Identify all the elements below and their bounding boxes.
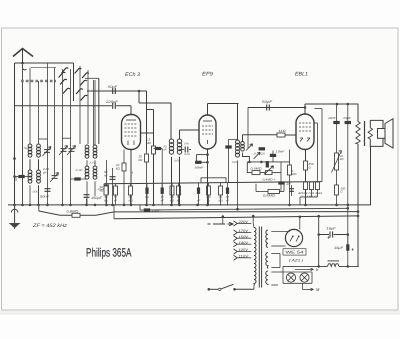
gray strip below page — [0, 311, 400, 315]
svg-text:nF: nF — [161, 199, 164, 202]
coil IF2 primary — [236, 140, 240, 144]
capacitor 50pF top — [267, 105, 270, 111]
bus junction — [335, 204, 338, 207]
wire avc low 2 — [260, 172, 266, 174]
transformer sec HT — [266, 230, 268, 247]
capacitor coupling blob — [18, 175, 24, 178]
resistor trio 3 — [316, 182, 320, 190]
resistor 0.8M left — [72, 213, 80, 217]
bus junction — [21, 204, 24, 207]
svg-text:Philips 365A: Philips 365A — [86, 245, 132, 259]
wire IF2 prim bot — [237, 160, 239, 209]
speaker — [378, 129, 386, 139]
svg-text:1,5k: 1,5k — [89, 162, 97, 165]
svg-text:MΩ: MΩ — [218, 199, 222, 202]
wire avc mid — [247, 161, 289, 163]
resistor osc 50k — [105, 185, 109, 194]
capacitor out 2 — [345, 121, 351, 124]
coil IF2 secondary — [241, 142, 245, 146]
wire EBL1 anode top — [304, 104, 306, 114]
wire osc low b — [94, 181, 96, 196]
coil L3a — [85, 145, 89, 149]
svg-text:kΩ: kΩ — [104, 199, 107, 202]
wire lamp feed top — [271, 271, 283, 273]
wire osc link upper — [147, 109, 154, 111]
wire switch vertical x70 — [70, 69, 72, 206]
wire screen line — [140, 208, 348, 210]
capacitor 50nF trio — [291, 185, 293, 196]
wire avc low 3 — [272, 172, 281, 174]
wire anode feed corner — [138, 91, 140, 103]
bus junction — [123, 204, 126, 207]
wire x336 upper — [336, 104, 338, 153]
transformer tap 220V — [234, 221, 238, 226]
capacitor IF2 blob — [229, 140, 238, 183]
wire EBL1 cathode — [305, 150, 307, 206]
capacitor blob mid — [259, 147, 265, 150]
node b+ mid — [317, 233, 320, 236]
node antenna bus — [21, 62, 24, 65]
wire screen loop — [201, 178, 226, 182]
dial lamp 1 — [286, 273, 295, 282]
svg-text:ECh 3: ECh 3 — [125, 72, 140, 78]
trimmer capacitor rf 2 — [69, 149, 75, 152]
transformer mains primary — [254, 228, 256, 286]
capacitor 150pF — [84, 195, 90, 198]
wire x38 lower — [38, 185, 40, 206]
capacitor 220pF — [113, 103, 116, 109]
trimmer capacitor rf 1 — [61, 149, 67, 152]
band switch contact 7 — [63, 88, 70, 93]
wire link ant top — [39, 138, 48, 140]
svg-text:2μF: 2μF — [285, 182, 291, 186]
wire cath tap — [196, 154, 207, 156]
wire osc mid b — [94, 160, 96, 166]
bus junction — [61, 204, 64, 207]
svg-text:1kΩ: 1kΩ — [279, 129, 287, 133]
bus junction — [152, 204, 155, 207]
svg-text:50p: 50p — [14, 176, 18, 181]
wire rosc v — [106, 160, 108, 206]
wire top y107 — [248, 107, 305, 109]
wire B+ drop — [318, 216, 320, 266]
wire IF1 sec top — [179, 130, 181, 139]
svg-text:220pF: 220pF — [105, 100, 119, 104]
wire HT rail — [114, 216, 358, 219]
bus junction — [13, 204, 16, 207]
svg-text:WE 54: WE 54 — [286, 250, 305, 255]
capacitor row 11 — [227, 183, 229, 188]
wire IF2 sec bot — [243, 153, 250, 162]
bus junction — [170, 204, 173, 207]
wire light horizontal y67 — [31, 67, 56, 69]
bus junction — [288, 204, 291, 207]
potentiometer tone — [335, 153, 339, 170]
svg-text:3-30: 3-30 — [76, 169, 84, 172]
trimmer capacitor ant 1 — [44, 150, 50, 153]
svg-text:150pF: 150pF — [91, 196, 103, 200]
svg-text:ZF = 452 kHz: ZF = 452 kHz — [32, 223, 68, 229]
wire x347 long — [347, 104, 349, 245]
tube ECh3 grids — [125, 124, 138, 136]
svg-text:50μF: 50μF — [98, 188, 105, 191]
coil L2b — [37, 170, 41, 174]
svg-text:Σ | MΩ Ω: Σ | MΩ Ω — [301, 196, 317, 199]
resistor 10k — [122, 163, 126, 171]
wire rect heater a — [271, 253, 280, 255]
svg-text:nF: nF — [114, 199, 117, 202]
wire rect heater b — [271, 267, 280, 269]
wire switch vertical x95 — [94, 80, 96, 145]
coil L1b — [37, 144, 41, 148]
tube EBL1 grids — [299, 123, 311, 131]
coil IF1 primary — [169, 139, 173, 143]
wire grid line y105 — [15, 105, 132, 107]
wire link rf top — [63, 137, 71, 139]
wire IF1 grid — [180, 129, 200, 131]
wire cap anode — [154, 148, 163, 150]
wire AVC grid — [243, 134, 278, 136]
tube ECh3 envelope — [122, 115, 141, 150]
svg-text:0,4MΩ +: 0,4MΩ + — [263, 177, 276, 181]
wire switch feed vertical — [73, 63, 75, 101]
svg-text:nF: nF — [164, 149, 167, 152]
bus junction — [105, 204, 108, 207]
capacitor IF1 — [180, 149, 192, 151]
wire speaker return — [370, 146, 372, 205]
bus junction — [145, 204, 148, 207]
wire diode top link — [315, 108, 323, 110]
transformer tap 125V — [234, 249, 238, 254]
svg-text:150V: 150V — [239, 235, 249, 239]
capacitor 16uF b — [346, 244, 349, 250]
wire 150p down — [86, 199, 88, 206]
antenna — [13, 49, 33, 57]
svg-text:50pF: 50pF — [262, 100, 273, 104]
ground — [14, 205, 16, 223]
bus junction — [111, 204, 114, 207]
capacitor 10nF bus — [144, 208, 150, 211]
resistor 100ohm — [336, 170, 338, 205]
capacitor padding blob — [74, 177, 80, 180]
wire trio bottom — [300, 196, 318, 198]
wire rect anode 1 — [271, 231, 289, 233]
svg-text:0,8MΩ: 0,8MΩ — [67, 210, 80, 214]
svg-text:pF: pF — [42, 170, 47, 174]
transformer sec heater1 — [266, 252, 268, 268]
wire trio rail — [296, 181, 322, 183]
wire switch vertical x80 — [79, 66, 81, 144]
svg-text:5%: 5% — [145, 196, 149, 199]
tube EBL1 envelope — [296, 114, 314, 150]
transformer mains core — [258, 227, 260, 288]
node b1 — [336, 103, 339, 106]
node B- junctions — [317, 265, 320, 268]
resistor row 9 — [208, 183, 210, 186]
resistor row 10 — [220, 183, 222, 186]
coil L3b — [93, 145, 97, 149]
svg-text:50pF: 50pF — [108, 85, 118, 89]
transformer tap 140V — [234, 242, 238, 247]
bus junction — [46, 204, 49, 207]
wire EF9 top link — [208, 103, 239, 105]
wire grid cap down to ECh3 — [130, 106, 132, 115]
wire rect anode 2 — [271, 245, 285, 247]
wire blob stub — [15, 176, 31, 178]
transformer tap 170V — [234, 230, 238, 235]
capacitor 2uF — [278, 181, 284, 184]
wire switch vertical x88 — [87, 70, 89, 144]
svg-text:EF9: EF9 — [202, 72, 213, 78]
transformer sec heater2 — [266, 271, 268, 285]
bus junction — [130, 204, 133, 207]
resistor 20k — [145, 154, 149, 162]
wire HT drop — [113, 205, 115, 219]
band switch contact 8 — [76, 89, 83, 94]
svg-text:MΩ: MΩ — [128, 199, 132, 202]
wire antenna down with hop — [22, 63, 26, 205]
capacitor 50nF cath — [110, 177, 116, 180]
wire cap50 v — [47, 158, 49, 206]
wire avc low — [247, 162, 252, 173]
transformer output core — [364, 121, 366, 146]
wire switch vertical x62 — [62, 69, 64, 206]
wire ECh3 osc anode link — [141, 132, 154, 134]
band switch contact 9 — [81, 95, 88, 100]
wire 10k v — [123, 150, 125, 206]
wire out prim top — [357, 104, 359, 122]
svg-text:10nF: 10nF — [152, 209, 161, 213]
band switch contact 5 — [82, 73, 89, 78]
band switch contact 2 — [75, 68, 82, 73]
trimmer IF2 core 1 — [246, 144, 253, 151]
capacitor 50pF — [113, 88, 116, 94]
tube EF9 grids — [202, 126, 213, 134]
node x14 y158 — [13, 157, 16, 160]
transformer output primary — [356, 122, 360, 145]
wire speaker loop bottom — [370, 138, 383, 146]
resistor 0.8M right — [268, 190, 280, 194]
wire IF1 sec bot — [179, 157, 181, 206]
wire x30 upper — [29, 68, 31, 145]
resistor row 3 — [130, 184, 132, 186]
wire to M arrow — [302, 283, 304, 289]
wire rail drop x104 — [103, 184, 105, 186]
svg-text:nF: nF — [104, 173, 108, 177]
tuning gang link (dashed) — [21, 80, 56, 82]
svg-text:140V: 140V — [239, 241, 249, 245]
svg-text:170V: 170V — [239, 229, 249, 233]
node ht trans — [222, 215, 225, 218]
bus junction — [347, 204, 350, 207]
wire top horizontal y63 — [15, 62, 74, 64]
svg-text:nF: nF — [226, 199, 229, 202]
wire gang stator 2 — [54, 68, 56, 176]
wire 20k v — [146, 150, 148, 206]
resistor row 6 — [171, 183, 173, 186]
resistor trio 1 — [304, 182, 308, 190]
wire primary bottom — [253, 286, 255, 290]
resistor row 7 — [178, 183, 180, 186]
wire x30 lower — [29, 185, 31, 206]
band switch contact 6 — [80, 80, 87, 85]
label WE54 — [283, 249, 306, 255]
svg-text:( AZ1 ): ( AZ1 ) — [289, 258, 303, 262]
wire x38 mid — [38, 159, 40, 170]
rectifier tube WE54/AZ1 — [285, 229, 302, 246]
capacitor 10nF EBL1 — [272, 151, 274, 162]
wire rect cathode up — [299, 217, 301, 230]
trimmer IF2 core 2 — [254, 152, 261, 159]
svg-text:50nF: 50nF — [195, 166, 204, 170]
wire x146 osc — [146, 91, 148, 150]
wire 1.2M v — [153, 110, 155, 206]
wire x38 upper — [38, 81, 40, 144]
dial lamp 2 — [300, 273, 309, 282]
tube EF9 envelope — [199, 115, 216, 149]
bus junction — [94, 204, 97, 207]
wire ECh3 cathode — [130, 150, 132, 206]
capacitor out 1 — [333, 121, 339, 124]
wire out prim bot — [357, 144, 359, 266]
wire x30 mid — [29, 159, 31, 170]
wire x347 lower — [347, 235, 349, 267]
wire gang stator 1 — [47, 63, 49, 158]
wire diode return 2 — [321, 109, 323, 182]
wire 16uF a link — [319, 234, 348, 236]
capacitor row 5 — [161, 183, 163, 187]
svg-text:MΩ: MΩ — [146, 141, 151, 145]
resistor bias 1M — [289, 150, 291, 206]
wire IF1 prim bot — [171, 157, 173, 206]
wire grid to EBL1 — [285, 134, 296, 136]
svg-text:0,1/25: 0,1/25 — [254, 152, 266, 155]
wire EF9 cathode — [207, 149, 209, 206]
resistor row 1 — [105, 184, 107, 186]
coil L1a — [28, 144, 32, 148]
node b2 — [347, 103, 350, 106]
wire lamp up — [282, 266, 284, 272]
resistor 1.2M — [152, 146, 156, 154]
node x14 y176 — [13, 175, 16, 178]
svg-text:10nF: 10nF — [276, 150, 285, 154]
node anode y107 — [304, 106, 307, 109]
wire IF2 prim top — [237, 104, 239, 141]
wire mains drop — [222, 217, 224, 224]
wire avc drop — [38, 205, 40, 211]
wire padding stub — [71, 178, 88, 180]
resistor 850 — [304, 161, 308, 170]
bus junction — [178, 204, 181, 207]
choke field coil — [328, 264, 339, 267]
capacitor 16uF a — [329, 231, 334, 238]
wire B- horizontal — [283, 265, 328, 267]
resistor 0.5M — [252, 171, 260, 175]
bus junction — [85, 204, 88, 207]
band switch contact 4 — [60, 79, 67, 84]
capacitor 50nF ant — [45, 189, 51, 192]
svg-text:50nF: 50nF — [40, 195, 50, 199]
wire left vertical x14 — [14, 63, 16, 206]
coil L2a — [28, 170, 32, 174]
svg-text:500: 500 — [33, 191, 40, 194]
coil L4b — [93, 166, 97, 170]
trimmer capacitor ant 2 — [52, 176, 58, 179]
capacitor row 8 — [198, 183, 200, 188]
band switch contact 1 — [62, 68, 69, 73]
resistor row 2 — [115, 184, 117, 186]
wire ground bus — [8, 204, 371, 206]
coil L4a — [85, 166, 89, 170]
node anode junction — [138, 90, 141, 93]
wire IF1 prim top — [170, 103, 172, 139]
bus junction — [206, 204, 209, 207]
svg-text:110V: 110V — [239, 254, 249, 258]
wire osc mid a — [86, 160, 88, 166]
wire screen rail — [104, 182, 322, 184]
bus junction — [304, 204, 307, 207]
wire osc low a — [86, 181, 88, 206]
transformer output secondary — [368, 128, 372, 139]
bus junction — [196, 204, 199, 207]
mains arrow — [208, 222, 234, 225]
bus junction — [29, 204, 32, 207]
wire AVC rail — [39, 211, 358, 215]
band switch contact 3 — [59, 72, 66, 77]
capacitor row 4 — [146, 183, 148, 187]
wire x100 vertical — [98, 78, 100, 144]
lamp loop — [283, 272, 312, 283]
wire avc v281 — [280, 162, 282, 192]
mains switch — [208, 288, 211, 291]
svg-text:EBL1: EBL1 — [295, 72, 308, 78]
potentiometer 0.4M — [266, 171, 273, 175]
svg-text:0,5MΩ: 0,5MΩ — [251, 167, 263, 171]
wire speaker loop top — [370, 120, 383, 128]
capacitor 50nF anode — [155, 147, 161, 150]
svg-text:15μF: 15μF — [343, 116, 351, 120]
wire top y104 — [305, 103, 359, 105]
wire osc grid y91 — [87, 90, 147, 92]
svg-text:nF: nF — [197, 199, 200, 202]
transformer tap 150V — [234, 236, 238, 241]
wire x248 down — [247, 108, 249, 149]
wire trans top — [252, 216, 254, 223]
svg-text:220V: 220V — [237, 220, 249, 224]
wire to h arrow — [295, 268, 314, 270]
svg-text:50%: 50% — [184, 153, 191, 156]
svg-text:125V: 125V — [239, 248, 249, 252]
wire 50n cath — [112, 168, 114, 206]
capacitor 50nF EF9 — [195, 161, 201, 164]
bus junction — [37, 204, 40, 207]
svg-text:0,8MΩ: 0,8MΩ — [263, 194, 276, 198]
wire diode return 1 — [317, 123, 319, 182]
bus junction — [69, 204, 72, 207]
svg-text:16μF: 16μF — [334, 246, 344, 250]
wire switch vertical x93 — [93, 80, 95, 145]
wire EF9 grid top — [207, 104, 209, 116]
node HT right — [357, 215, 360, 218]
transformer tap 110V — [234, 255, 238, 260]
resistor 1k grid — [277, 133, 285, 137]
wire lamp feed bot — [271, 284, 278, 286]
resistor trio 2 — [310, 182, 314, 190]
coil IF1 secondary — [177, 139, 181, 143]
capacitor small bar — [266, 161, 269, 167]
svg-text:16μF: 16μF — [327, 227, 337, 231]
wire IF2 sec top — [242, 135, 244, 142]
